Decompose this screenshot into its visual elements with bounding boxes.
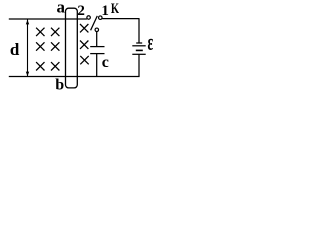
field cross marks	[36, 24, 89, 71]
cross x row2 col1	[36, 42, 44, 50]
switch pivot circle	[95, 28, 99, 32]
wire battery bottom lead	[138, 54, 140, 77]
wire bottom rail	[9, 76, 140, 78]
battery plate short 1	[136, 42, 142, 44]
svg-text:K: K	[111, 1, 119, 17]
cross x row3 col1	[36, 62, 44, 70]
rod ab (rounded capsule)	[66, 8, 78, 88]
switch contact 2 circle	[87, 16, 91, 20]
cross x row1 col1	[36, 28, 44, 36]
battery plate long 2	[132, 53, 145, 55]
svg-text:1: 1	[101, 3, 109, 19]
wire capacitor bottom lead	[96, 54, 98, 77]
cross x row3 col2	[51, 62, 59, 70]
cross x row2 col2	[51, 42, 59, 50]
dimension arrow d	[26, 20, 29, 77]
switch K lever	[91, 16, 98, 30]
wire battery top lead	[138, 19, 140, 43]
battery plate short 2	[136, 49, 143, 51]
wire top right to battery	[102, 18, 139, 20]
svg-text:2: 2	[77, 3, 85, 19]
cross x row1 col2	[51, 28, 59, 36]
cross x right col row1	[80, 24, 88, 32]
svg-text:b: b	[55, 77, 64, 94]
svg-text:d: d	[10, 40, 20, 59]
battery plate long 1	[132, 45, 145, 47]
cross x right col row2	[80, 41, 88, 49]
svg-text:ε: ε	[148, 30, 154, 56]
wire top rail	[9, 18, 87, 20]
svg-text:c: c	[102, 54, 109, 71]
capacitor plate bottom	[90, 53, 104, 55]
switch contact 1 circle	[99, 16, 103, 20]
svg-text:a: a	[57, 0, 66, 16]
capacitor plate top	[90, 46, 104, 48]
cross x right col row3	[80, 56, 88, 64]
wire capacitor top lead	[96, 32, 98, 47]
